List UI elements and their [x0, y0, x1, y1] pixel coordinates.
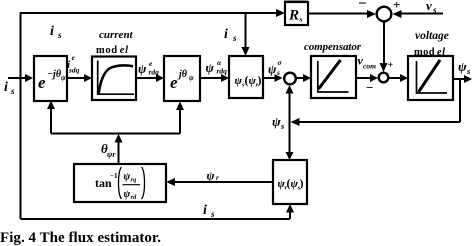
svg-text:i: i — [224, 27, 228, 42]
scan artifact above Rs — [284, 0, 308, 3]
block U6: voltage model (integrator) — [408, 56, 453, 100]
svg-text:ψ: ψ — [272, 114, 281, 129]
sign minus at S0 — [358, 0, 367, 12]
block U8: arctan(psi_rq/psi_rd) — [74, 164, 166, 202]
svg-text:−jθ: −jθ — [47, 69, 62, 80]
node psi_s feedback label — [272, 114, 285, 131]
svg-text:): ) — [300, 176, 304, 190]
node i^e_sdq label — [67, 53, 80, 75]
svg-text:s: s — [466, 66, 471, 76]
wire: S2 to voltage model — [389, 74, 408, 82]
node v_s label — [426, 0, 437, 15]
wire: J1 to compensator — [296, 74, 311, 82]
wire: i_s drop to psi_s(psi_r) block — [242, 13, 250, 56]
node i_s input label — [4, 80, 15, 96]
node psi^s_s label — [268, 58, 283, 77]
svg-text:s: s — [57, 30, 62, 40]
wire: i_s input stub at left — [8, 74, 33, 82]
svg-text:−: − — [366, 80, 373, 95]
wire: compensator to S2 — [356, 74, 378, 82]
svg-text:rdq: rdq — [217, 67, 228, 76]
wire: feedback up into J1 — [286, 85, 294, 122]
svg-text:e: e — [170, 73, 178, 92]
node psi^a_rdq label — [206, 58, 228, 76]
svg-text:r: r — [216, 174, 219, 182]
wire: psi_s feedback to J1 branch — [291, 118, 461, 126]
sign plus at S0 — [393, 0, 400, 12]
label: voltage model — [414, 30, 449, 58]
node psi_s output label — [458, 59, 471, 76]
block U3: e^j(theta) rotation — [164, 56, 200, 101]
svg-text:rd: rd — [131, 194, 138, 201]
svg-text:ψ: ψ — [207, 169, 216, 183]
block U2: current model (saturation curve) — [92, 57, 136, 101]
svg-text:s: s — [10, 86, 15, 96]
wire: U7 output psi_r to arctan block — [166, 178, 273, 186]
svg-text:ψ: ψ — [124, 172, 131, 183]
svg-text:s: s — [432, 5, 437, 15]
svg-text:model: model — [96, 45, 128, 56]
svg-text:): ) — [258, 73, 262, 87]
svg-text:ψ: ψ — [61, 74, 66, 82]
svg-text:jθ: jθ — [177, 69, 188, 80]
wire: voltage model output psi_s — [453, 75, 472, 83]
svg-text:ψr: ψr — [107, 150, 116, 159]
svg-text:ψ: ψ — [138, 62, 147, 76]
wire: Rs to top summing junction — [308, 10, 376, 18]
svg-text:s: s — [276, 68, 280, 77]
wire: left vertical bus — [20, 13, 22, 220]
wire: U1 to current model — [67, 74, 92, 82]
label: current model — [96, 29, 134, 56]
wire: output down right side — [459, 79, 461, 122]
wire: U3 to U4 — [200, 74, 229, 82]
sign minus at S2 — [366, 80, 373, 95]
resistor block Rs — [285, 2, 308, 25]
svg-text:s: s — [232, 33, 237, 43]
svg-text:i: i — [203, 203, 207, 218]
svg-text:−1: −1 — [110, 172, 118, 180]
svg-text:Fig. 4 The flux estimator.: Fig. 4 The flux estimator. — [0, 230, 161, 246]
svg-text:s: s — [299, 15, 303, 24]
block U1: e^-j(theta) rotation — [34, 56, 67, 101]
summing junction J1 — [284, 73, 296, 85]
wire: U4 to junction J1 — [263, 74, 283, 82]
node i_s label above block4 — [224, 27, 237, 43]
svg-text:i: i — [4, 80, 8, 95]
svg-text:rq: rq — [131, 177, 138, 184]
svg-text:current: current — [99, 29, 134, 41]
svg-text:R: R — [288, 8, 299, 24]
svg-text:compensator: compensator — [304, 41, 362, 53]
wire: theta horizontal distribution — [51, 133, 180, 135]
wire: bottom i_s line — [21, 218, 291, 220]
svg-text:s: s — [210, 209, 215, 219]
wire: feedback down into U7 — [286, 122, 294, 160]
svg-text:+: + — [388, 60, 394, 71]
svg-text:−: − — [358, 0, 367, 12]
wire: current model to U3 — [136, 74, 164, 82]
node psi^e_rdq label — [138, 59, 159, 77]
svg-text:e: e — [38, 73, 46, 92]
svg-text:ψ: ψ — [458, 59, 467, 74]
wire: S0 down to S2 — [380, 22, 388, 73]
svg-text:+: + — [393, 0, 400, 12]
svg-text:com: com — [363, 62, 376, 71]
svg-text:voltage: voltage — [415, 30, 449, 42]
block U5: compensator (gain curve) — [311, 56, 356, 98]
svg-text:ψ: ψ — [206, 61, 215, 75]
node i_s top label — [50, 24, 62, 40]
caption — [0, 230, 161, 246]
wire: theta up into U1 — [47, 101, 55, 134]
node v_com label — [358, 54, 377, 71]
wire: i_s up into U7 — [286, 204, 294, 219]
svg-text:ψ: ψ — [189, 74, 194, 82]
block U4: psi_s(psi_r) — [229, 56, 263, 98]
sign plus at S2 — [388, 60, 394, 71]
svg-text:i: i — [50, 24, 54, 39]
wire: arctan output theta up — [115, 134, 123, 164]
wire: v_s input from right — [393, 10, 444, 18]
node i_s bottom label — [203, 203, 215, 219]
node psi_r label — [207, 169, 220, 183]
block U7: psi_r(psi_s) — [273, 160, 307, 204]
svg-text:v: v — [426, 0, 432, 13]
node theta_psi-r label — [101, 141, 116, 159]
wire: top i_s line to Rs — [20, 9, 285, 17]
svg-text:ψ: ψ — [124, 189, 131, 200]
svg-text:rdq: rdq — [149, 68, 160, 77]
summing junction S0 (vs - Rs*is) — [377, 7, 392, 22]
svg-text:sdq: sdq — [68, 66, 80, 75]
label: compensator — [304, 41, 362, 53]
svg-text:s: s — [280, 121, 285, 131]
summing junction S2 — [379, 73, 389, 83]
svg-text:ψ: ψ — [268, 63, 277, 77]
wire: theta up into U3 — [176, 102, 184, 134]
